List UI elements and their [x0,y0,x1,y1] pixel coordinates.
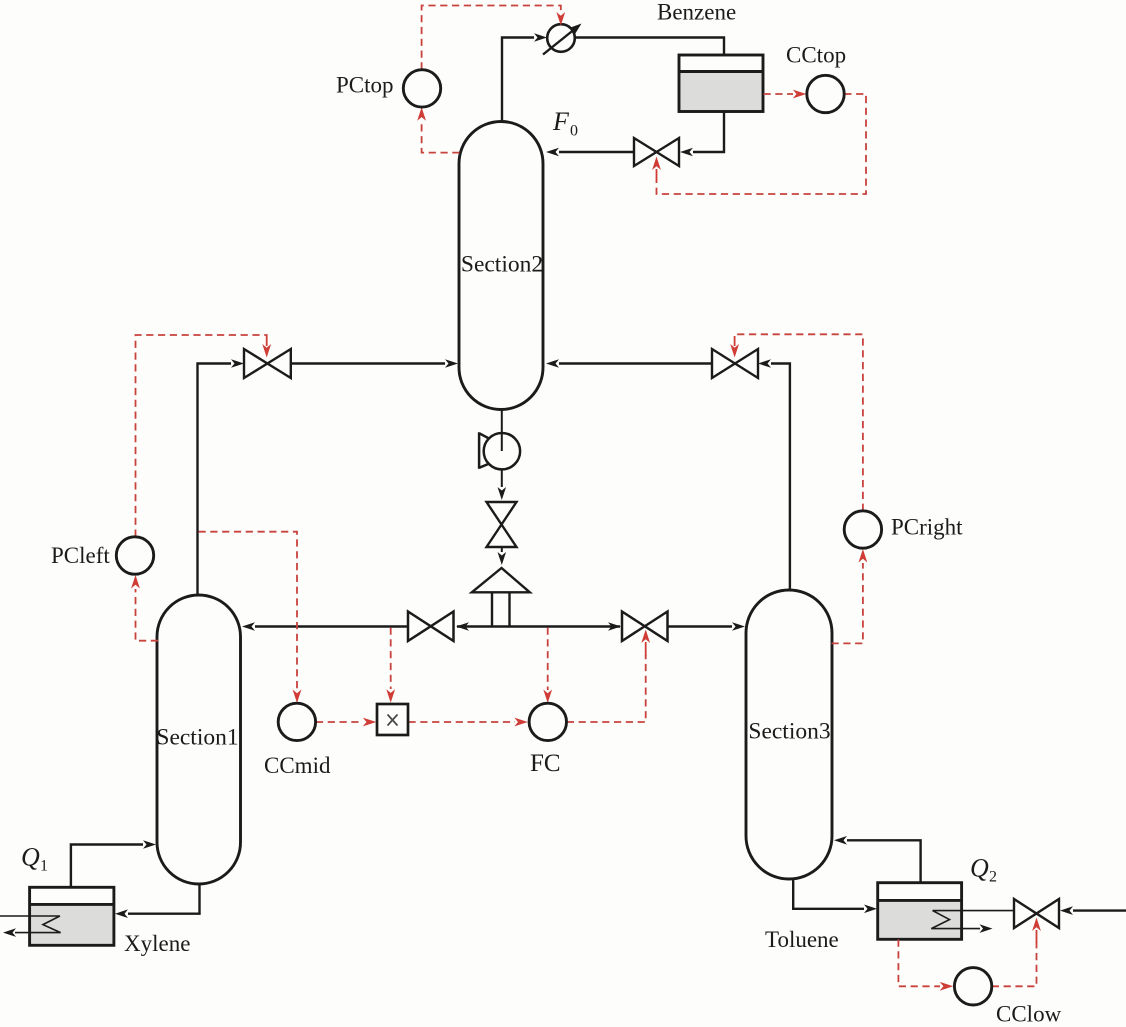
arrow into Section2 left [445,359,458,368]
controller PCtop [403,70,440,107]
red arrow into FC top [543,690,552,704]
arrow into valve VR1 [758,359,771,368]
signal Section3 top to PCright [832,563,863,643]
svg-text:CCmid: CCmid [264,753,331,778]
signal CCtop to valve Vtop [657,94,867,194]
column Section1 [156,595,240,884]
red arrow into multiplier left [363,718,377,727]
wire valve VR2 to Section3 [668,625,732,627]
signal CClow to valve V3 [992,942,1037,986]
red arrow into PCright [859,549,868,563]
svg-text:0: 0 [570,123,578,140]
splitter header [457,625,620,627]
arrow into Section1 right [242,622,255,631]
controller CClow [954,968,991,1005]
svg-text:Benzene: Benzene [657,0,736,25]
valve VR2 [622,612,668,642]
signal PCtop to condenser [422,6,561,70]
signal header to FC [547,628,549,691]
wire valve VL2 to Section1 [255,625,408,627]
arrow Q2 condensate out [980,924,993,933]
red arrow into valve V3 bottom [1032,918,1041,932]
signal FC to valve VR2 [567,655,646,722]
wire valve VL1 to Section2 left [291,362,445,364]
valve V3 [1014,899,1059,928]
svg-text:F: F [552,107,570,136]
wire valve V2 to splitter [501,547,503,552]
arrow Q1 condensate out [3,928,16,937]
arrow into Section3 left [732,622,745,631]
signal riser to CCmid [199,532,298,690]
svg-text:Toluene: Toluene [765,927,839,952]
arrow into condenser [534,33,547,42]
svg-text:Section2: Section2 [461,252,543,278]
arrow into valve V3 [1060,906,1073,915]
signal PCleft to valve VL1 [136,335,267,537]
wire Section2 bottom into compressor [501,410,503,452]
controller PCleft [116,537,153,574]
red arrow into valve VR1 top [730,344,739,358]
signal multiplier to FC [409,721,516,723]
arrow into Section2 right [546,359,559,368]
svg-text:Section3: Section3 [748,719,830,745]
signal Section2 top to PCtop [422,123,460,153]
signal PCright to valve VR1 [735,334,863,511]
wire Section3 riser to valve VR1 [771,364,790,592]
svg-text:CClow: CClow [996,1002,1062,1027]
controller CCmid [278,703,315,740]
wire Q1 vapor to Section1 [71,845,143,888]
valve V2 vertical [487,502,517,547]
reflux drum [679,55,763,112]
arrow into valve VL1 [231,359,244,368]
wire valve VR1 to Section2 right [559,362,712,364]
arrow into valve VL2 [456,622,469,631]
wire Section3 bottoms to Q2 [793,879,864,909]
valve VR1 [712,349,758,378]
red arrow into CCmid [293,690,302,704]
svg-text:Q: Q [970,854,989,883]
wire condenser to reflux drum [575,38,724,56]
compressor [479,432,520,469]
red arrow into valve VL1 top [262,344,271,358]
arrow into Q1 [115,909,128,918]
svg-text:Xylene: Xylene [124,931,190,956]
arrow into valve Vtop [680,148,693,157]
red arrow into valve VR2 bottom [641,630,650,644]
red arrow into PCleft [131,575,140,589]
reboiler Q2 [878,883,962,940]
wire steam supply to valve V3 [1073,909,1126,911]
svg-text:Section1: Section1 [156,725,238,751]
red arrow into CClow [940,982,954,991]
red arrow into multiplier top [386,689,395,703]
svg-text:PCtop: PCtop [336,72,394,97]
column Section3 [746,590,832,879]
valve Vtop [634,138,679,166]
arrow into Q2 [864,905,877,914]
arrow into splitter [498,552,507,565]
wire Q2 vapor to Section3 [847,840,921,882]
svg-text:PCright: PCright [891,515,963,540]
controller PCright [844,511,881,548]
svg-text:PCleft: PCleft [51,543,110,568]
reboiler Q1 [30,887,114,945]
red arrow into valve Vtop bottom [652,157,661,171]
wire valve Vtop to Section2 (F0 feed) [559,151,634,153]
controller CCtop [807,75,844,112]
svg-text:1: 1 [40,858,48,875]
signal drum to CCtop [764,93,794,95]
arrow into valve V2 [498,487,507,500]
svg-text:2: 2 [989,869,997,886]
arrow F0 into Section2 [546,148,559,157]
arrow vapor into Section3 [834,836,847,845]
arrow vapor into Section1 [143,840,156,849]
reboiler Q2 steam coil [931,911,1014,929]
red arrow into condenser [556,12,565,26]
wire Section1 bottoms to Q1 [128,884,200,914]
wire reflux drum down to valve Vtop [693,111,724,152]
valve VL1 [244,349,291,378]
splitter legs [492,592,510,626]
reboiler Q1 steam coil [0,916,61,933]
wire Section1 riser to valve VL1 [198,364,232,597]
condenser [543,24,582,55]
wire Section2 top to condenser [502,38,534,123]
signal Section1 top to PCleft [136,589,159,641]
red arrow into FC left [514,718,528,727]
signal pipe to multiplier [390,628,392,690]
multiplier box [377,704,408,735]
splitter triangle [472,568,530,592]
arrow into valve VR2 [608,622,621,631]
signal Q2 to CClow [898,940,940,987]
red arrow into CCtop [793,90,807,99]
svg-text:FC: FC [530,750,561,777]
wire compressor to valve V2 [501,469,503,487]
red arrow into PCtop [417,107,426,121]
svg-text:Q: Q [21,843,40,872]
signal CCmid to multiplier [316,721,363,723]
valve VL2 [408,612,454,642]
column Section2 [459,122,543,410]
svg-text:CCtop: CCtop [786,43,846,68]
controller FC [529,703,566,740]
